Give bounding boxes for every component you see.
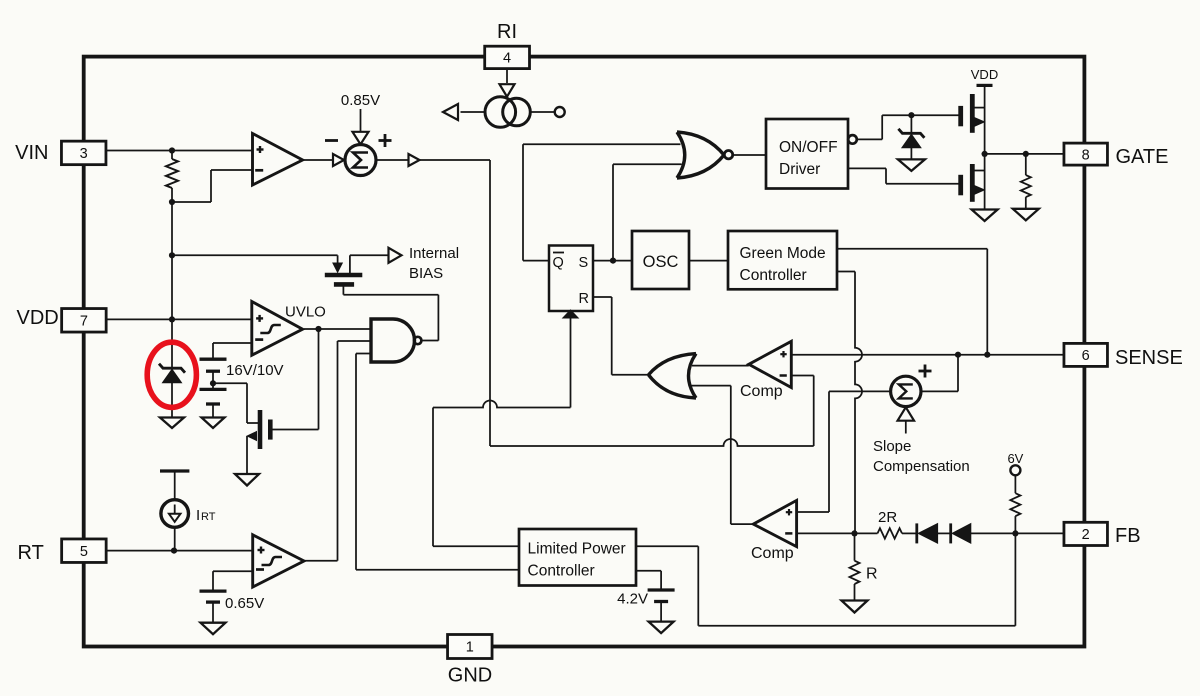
svg-text:Compensation: Compensation: [873, 458, 970, 475]
svg-text:6: 6: [1082, 348, 1090, 364]
svg-text:Controller: Controller: [740, 267, 807, 284]
svg-text:GATE: GATE: [1116, 146, 1169, 168]
svg-text:ON/OFF: ON/OFF: [779, 139, 838, 156]
svg-text:UVLO: UVLO: [285, 304, 326, 321]
svg-text:I: I: [196, 507, 200, 524]
svg-text:FB: FB: [1115, 525, 1141, 547]
svg-text:RT: RT: [201, 511, 216, 523]
svg-text:0.65V: 0.65V: [225, 595, 264, 612]
svg-text:S: S: [579, 255, 589, 271]
svg-text:SENSE: SENSE: [1115, 347, 1183, 369]
svg-text:2: 2: [1082, 527, 1090, 543]
svg-text:Controller: Controller: [528, 563, 595, 580]
svg-text:3: 3: [80, 146, 88, 162]
svg-text:0.85V: 0.85V: [341, 92, 380, 109]
svg-text:16V/10V: 16V/10V: [226, 362, 284, 379]
svg-text:RI: RI: [497, 21, 517, 43]
svg-text:VDD: VDD: [971, 67, 998, 82]
svg-text:VIN: VIN: [15, 142, 48, 164]
svg-text:Driver: Driver: [779, 161, 820, 178]
svg-text:6V: 6V: [1007, 451, 1023, 466]
svg-text:GND: GND: [448, 665, 492, 687]
svg-text:RT: RT: [18, 542, 44, 564]
svg-text:VDD: VDD: [17, 307, 59, 329]
svg-text:7: 7: [80, 314, 88, 330]
svg-text:4.2V: 4.2V: [617, 591, 648, 608]
svg-text:1: 1: [466, 640, 474, 656]
svg-text:2R: 2R: [878, 509, 897, 526]
svg-text:8: 8: [1082, 147, 1090, 163]
svg-text:R: R: [866, 566, 878, 583]
svg-text:Q: Q: [553, 255, 564, 271]
svg-text:Comp: Comp: [740, 383, 783, 400]
svg-text:4: 4: [503, 51, 511, 67]
svg-text:Limited Power: Limited Power: [528, 541, 626, 558]
svg-text:Comp: Comp: [751, 545, 794, 562]
svg-text:5: 5: [80, 544, 88, 560]
svg-text:R: R: [579, 291, 589, 307]
svg-text:OSC: OSC: [643, 253, 679, 271]
svg-text:Green Mode: Green Mode: [740, 245, 826, 262]
svg-text:Slope: Slope: [873, 438, 911, 455]
svg-text:Internal: Internal: [409, 245, 459, 262]
svg-text:BIAS: BIAS: [409, 265, 443, 282]
